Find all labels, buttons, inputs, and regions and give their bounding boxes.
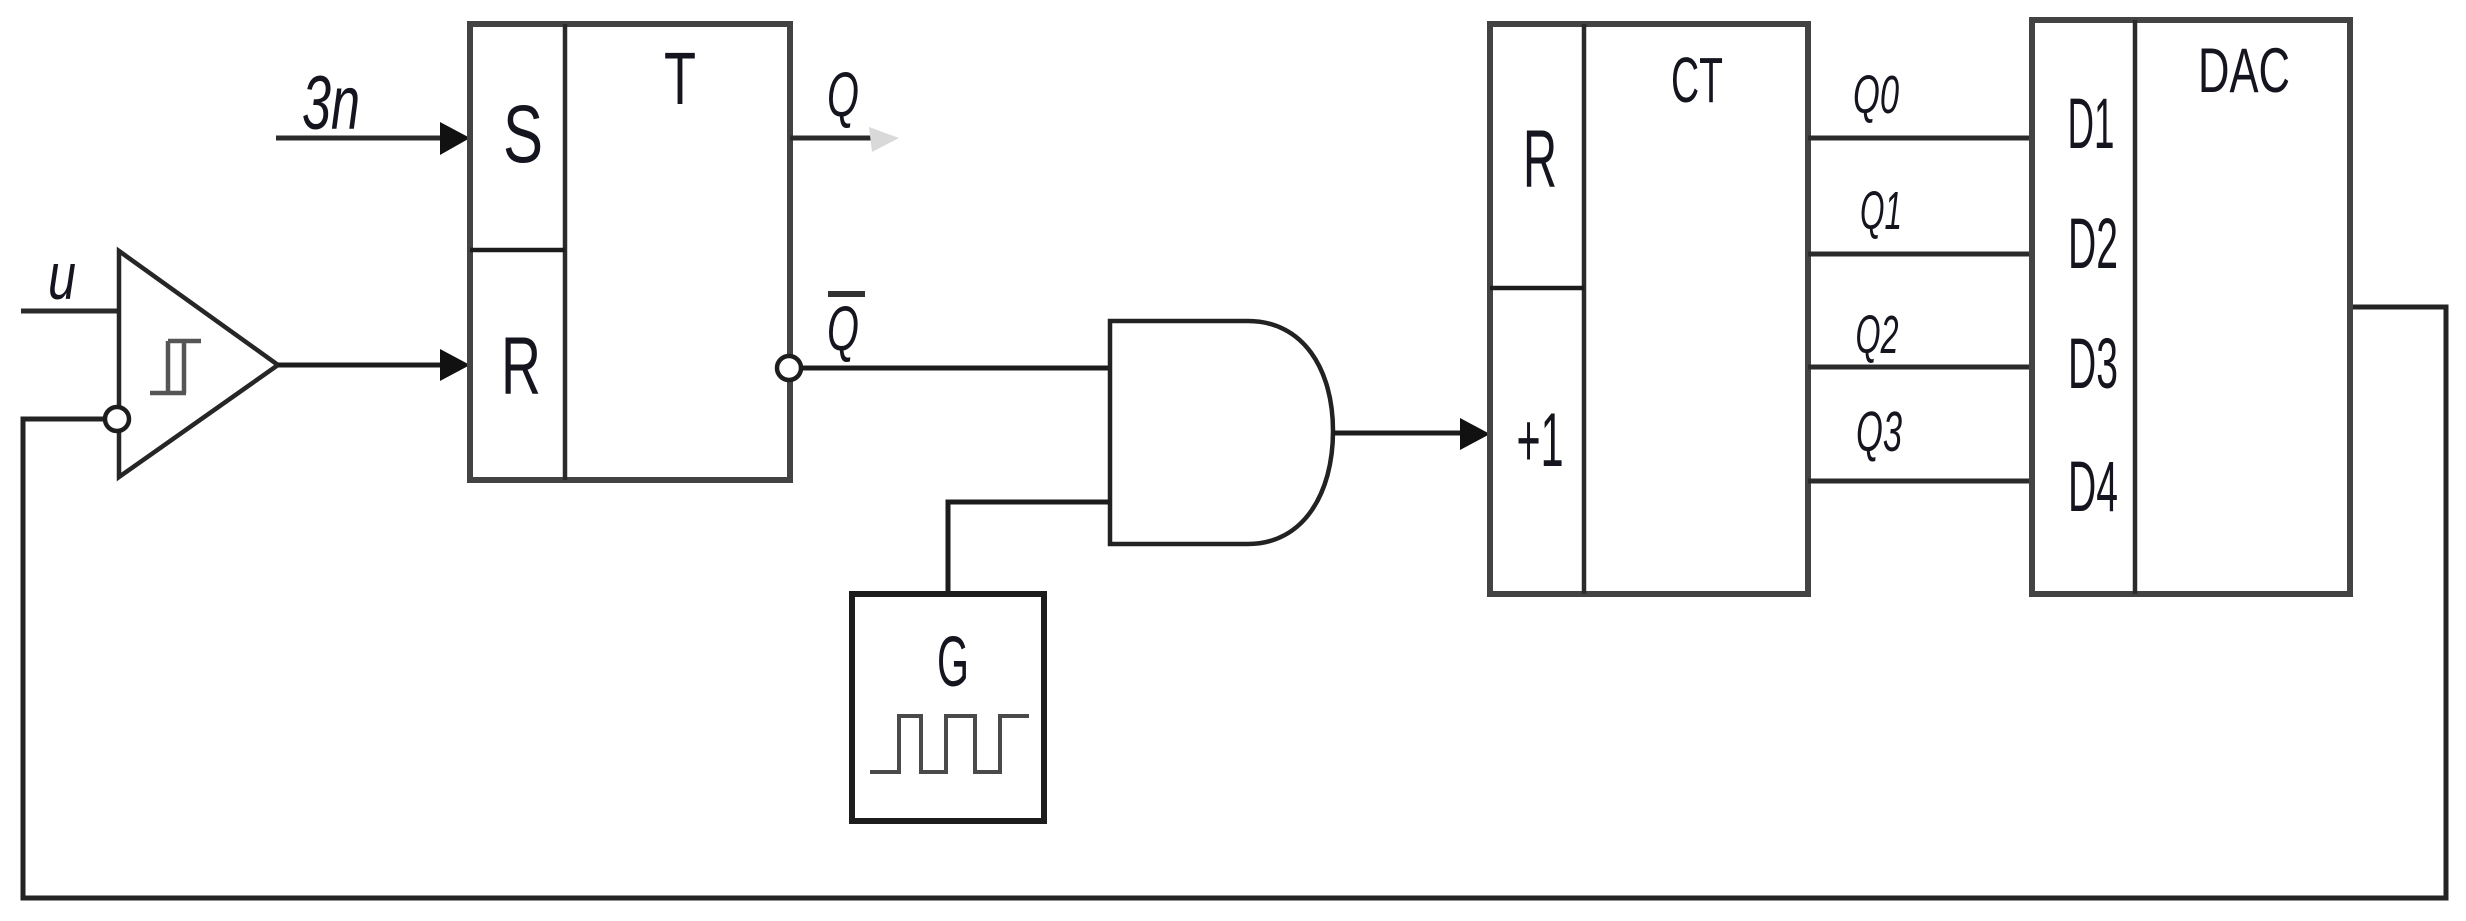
svg-text:CT: CT xyxy=(1671,44,1723,116)
svg-text:+1: +1 xyxy=(1517,398,1564,483)
svg-text:S: S xyxy=(503,89,543,180)
svg-text:Q3: Q3 xyxy=(1856,400,1902,464)
svg-text:u: u xyxy=(48,239,76,313)
svg-text:Q: Q xyxy=(827,60,859,130)
svg-text:D1: D1 xyxy=(2068,85,2115,164)
svg-text:D4: D4 xyxy=(2068,448,2118,527)
svg-text:R: R xyxy=(1523,114,1557,205)
svg-text:Q0: Q0 xyxy=(1853,65,1899,125)
svg-text:R: R xyxy=(501,321,541,412)
svg-text:Q2: Q2 xyxy=(1856,305,1899,365)
svg-text:G: G xyxy=(937,623,969,702)
svg-text:T: T xyxy=(664,37,696,120)
svg-text:D2: D2 xyxy=(2068,205,2118,284)
svg-text:DAC: DAC xyxy=(2198,36,2290,106)
svg-text:D3: D3 xyxy=(2068,325,2118,404)
svg-text:Q: Q xyxy=(827,294,859,364)
svg-text:Q1: Q1 xyxy=(1860,181,1902,241)
svg-text:3n: 3n xyxy=(302,61,360,146)
